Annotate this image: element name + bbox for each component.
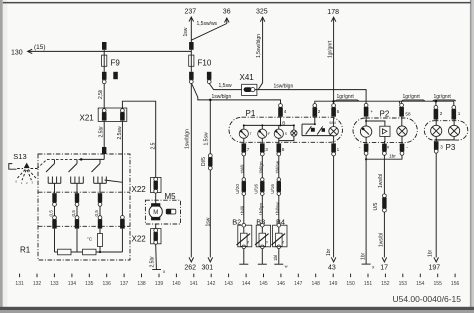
- wire 1br P1 pin1 to 43: [326, 156, 334, 258]
- P1 dimmer rheostat 1: [306, 126, 315, 134]
- svg-text:131: 131: [15, 281, 24, 287]
- wire 1sw/blgn F10 down to 262: [185, 84, 192, 258]
- P3 pin 2: [434, 106, 443, 120]
- svg-text:156: 156: [451, 281, 460, 287]
- svg-text:145: 145: [259, 281, 268, 287]
- terminal arrow 17: [380, 257, 388, 271]
- svg-text:X22: X22: [132, 185, 147, 194]
- svg-text:146: 146: [277, 281, 286, 287]
- P2 pin minus right: [400, 144, 409, 156]
- svg-text:1: 1: [21, 181, 23, 185]
- S13 mechanical link: [37, 159, 81, 168]
- wire 1sw/blgn F10 to P1 pin4: [192, 84, 281, 103]
- svg-text:155: 155: [434, 281, 443, 287]
- wire B2 to ground: [243, 249, 245, 264]
- document number U54.00-0040/6-15: [392, 294, 461, 304]
- svg-text:Dl/5: Dl/5: [201, 157, 207, 166]
- lamp unit P3 outline: [424, 121, 468, 153]
- svg-text:134: 134: [68, 281, 77, 287]
- svg-text:58: 58: [405, 111, 411, 116]
- P1 pin 4: [278, 104, 287, 117]
- svg-text:P2: P2: [380, 109, 390, 118]
- fuse F10: [189, 50, 212, 68]
- svg-text:1,5sw: 1,5sw: [219, 83, 232, 89]
- svg-text:2,5br: 2,5br: [99, 126, 105, 138]
- svg-text:301: 301: [202, 264, 214, 271]
- connector X22 upper: [132, 177, 162, 194]
- svg-text:2,5sw: 2,5sw: [117, 126, 123, 139]
- M5 interference suppressor: [166, 209, 176, 214]
- wire 1bl/gn to sensor B3: [259, 195, 264, 223]
- R1 input pin 3: [98, 216, 102, 229]
- P1 pin 7: [242, 143, 250, 156]
- ground point B3: [258, 263, 267, 265]
- wire 0,5 tap 2: [71, 206, 77, 216]
- svg-text:1bl/sw: 1bl/sw: [275, 202, 280, 216]
- svg-text:149: 149: [329, 281, 338, 287]
- svg-text:ϑ: ϑ: [266, 241, 268, 245]
- svg-text:1br: 1br: [326, 248, 332, 256]
- svg-text:1: 1: [458, 111, 461, 116]
- wire 2,5 loop X21 to X22 blower feed: [122, 101, 156, 177]
- P2 pin 58: [399, 101, 411, 116]
- terminal arrow 325 with wire 1,5sw/blgn: [256, 9, 268, 90]
- R1 feed pin from X21 2,5sw: [120, 216, 125, 229]
- R1 internal risers: [55, 229, 123, 252]
- svg-text:5: 5: [337, 109, 340, 114]
- connector Dl/5: [201, 154, 213, 170]
- svg-text:132: 132: [33, 281, 42, 287]
- svg-text:ϑ: ϑ: [282, 241, 284, 245]
- P2 pin plus: [364, 103, 374, 116]
- svg-text:0,5: 0,5: [49, 210, 54, 217]
- P1 dimmer rheostat 2: [317, 126, 325, 134]
- svg-text:R1: R1: [20, 246, 31, 255]
- svg-text:1sw: 1sw: [183, 27, 189, 36]
- svg-text:1ws/bl: 1ws/bl: [378, 174, 384, 188]
- R1 series chain wire: [55, 251, 123, 253]
- wire 2,5br X21 to S13: [99, 121, 105, 147]
- P1 gauge output drops: [244, 138, 279, 143]
- svg-text:3: 3: [440, 144, 443, 149]
- resistor unit R1 label: [20, 246, 31, 255]
- svg-text:2: 2: [440, 111, 443, 116]
- S13 feed pin from X21: [102, 147, 106, 154]
- terminal arrow 43: [328, 257, 336, 271]
- svg-text:58d: 58d: [329, 121, 335, 125]
- svg-text:2: 2: [318, 109, 321, 114]
- fuse F9 terminal pin on bus: [102, 42, 107, 50]
- svg-text:152: 152: [381, 281, 390, 287]
- svg-text:137: 137: [120, 281, 129, 287]
- svg-text:X41: X41: [240, 73, 255, 82]
- svg-text:-: -: [359, 144, 361, 150]
- svg-text:1bl/gn: 1bl/gn: [259, 203, 264, 216]
- svg-text:1gr/gnrt: 1gr/gnrt: [337, 94, 355, 100]
- svg-text:7: 7: [247, 147, 250, 152]
- svg-text:1gr/gnrt: 1gr/gnrt: [403, 94, 421, 100]
- svg-text:T: T: [250, 132, 253, 136]
- svg-text:F: F: [268, 132, 271, 136]
- svg-text:143: 143: [224, 281, 233, 287]
- label 1gr/gnrt right: [433, 94, 456, 101]
- ground point 1br with weld x: [362, 264, 376, 270]
- resistor R1 element 1: [58, 249, 72, 255]
- svg-text:°C: °C: [87, 237, 93, 242]
- S13 contact blade 1: [46, 159, 55, 172]
- S13 contact bank 3: [94, 177, 107, 194]
- svg-text:U/16: U/16: [254, 184, 259, 194]
- S13 high speed tap to 2,5sw wire: [105, 180, 123, 182]
- label 1gr/gnrt middle: [402, 94, 425, 101]
- P3 lamp left: [431, 120, 442, 137]
- wire 1ws/bl U/5 to 17: [379, 212, 385, 257]
- connector X41: [240, 73, 257, 95]
- terminal arrow 301: [202, 257, 214, 271]
- svg-text:U/20: U/20: [235, 184, 240, 194]
- fuse F10 terminal pin on bus: [189, 42, 194, 50]
- svg-text:237: 237: [185, 9, 197, 16]
- svg-text:F9: F9: [111, 58, 121, 67]
- rotary switch S13 symbol: [9, 152, 37, 185]
- svg-text:M5: M5: [165, 192, 177, 201]
- svg-text:133: 133: [50, 281, 59, 287]
- svg-text:136: 136: [103, 281, 112, 287]
- P1 gauge 3 (oil): [274, 129, 287, 138]
- wire 1br P2 minus join: [365, 153, 402, 160]
- svg-text:3: 3: [265, 147, 268, 152]
- ground point B4 with weld w: [274, 263, 287, 268]
- wire 1,5sw junction down to connector Dl/5: [203, 100, 210, 154]
- wire 1ws/bl P2 v down: [378, 155, 384, 194]
- svg-text:138: 138: [137, 281, 146, 287]
- wire 2,5sw X21 to R1 pin: [117, 121, 123, 216]
- svg-text:x: x: [163, 269, 166, 274]
- svg-text:1gr/gnrt: 1gr/gnrt: [328, 40, 334, 58]
- terminal arrow 237: [183, 9, 196, 42]
- svg-text:178: 178: [327, 9, 339, 16]
- svg-text:151: 151: [364, 281, 373, 287]
- P2 lamp: [397, 126, 407, 136]
- svg-text:1bl/li: 1bl/li: [240, 206, 245, 215]
- wire 1bl/sw to sensor B4: [275, 195, 280, 223]
- wire 2,5li F9 to X21: [98, 84, 104, 109]
- wire 1,5sw F10 to X41: [209, 83, 241, 89]
- svg-text:2,5br: 2,5br: [150, 256, 156, 268]
- P1 pin 1: [331, 143, 339, 156]
- wire 0,5 tap 1: [49, 206, 55, 216]
- wire 2,5br M5 to ground: [150, 224, 157, 269]
- wire B4 to ground: [273, 249, 279, 264]
- wire 1br P2 to ground: [361, 155, 367, 264]
- svg-text:147: 147: [294, 281, 303, 287]
- svg-text:ϑ: ϑ: [247, 241, 249, 245]
- P1 pin 5: [331, 104, 339, 117]
- P1 pin 8: [277, 143, 285, 156]
- terminal arrow 262: [184, 257, 196, 271]
- svg-text:141: 141: [190, 281, 199, 287]
- wire 1bl/sw P1 to B4: [275, 156, 280, 178]
- fuse F9: [102, 50, 121, 68]
- S13 contact blade 3: [92, 159, 101, 172]
- P3 pin 1: [452, 106, 461, 120]
- ground point B2: [239, 263, 248, 265]
- connector U/20: [235, 178, 246, 196]
- current track ruler: [15, 274, 459, 287]
- R1 thermal fuse: [87, 232, 103, 253]
- svg-text:1ws/bl: 1ws/bl: [379, 233, 385, 247]
- terminal arrow 197: [429, 257, 441, 271]
- wire 1bl/li to sensor B2: [240, 195, 245, 223]
- connector X21: [80, 108, 127, 123]
- wire 1sw/blgn X41 to P2 plus: [255, 83, 366, 103]
- connector U/5: [373, 194, 386, 212]
- svg-text:130: 130: [11, 50, 23, 57]
- terminal arrow 178 with wire 1gr/gnrt: [327, 9, 339, 101]
- junction 178 on bus: [332, 100, 335, 103]
- svg-text:w: w: [285, 263, 288, 268]
- resistor R1 element 2: [83, 249, 97, 255]
- P1 internal feed bus from pin4, label B: [243, 117, 295, 131]
- P1 pin 3: [260, 143, 268, 156]
- blower motor M5: [145, 192, 180, 224]
- instrument cluster P1 outline: [229, 109, 343, 143]
- P1 warning lamp: [279, 130, 297, 141]
- P1 pin 2: [313, 104, 321, 117]
- svg-text:P1: P1: [246, 109, 256, 118]
- label 1gr/gnrt left: [335, 94, 359, 101]
- svg-text:M: M: [153, 210, 158, 216]
- svg-text:262: 262: [184, 264, 196, 271]
- S13 R1 unit dash-dot box: [38, 154, 130, 260]
- svg-text:150: 150: [346, 281, 355, 287]
- P3 pin 3: [434, 141, 443, 153]
- svg-text:0,5: 0,5: [94, 210, 99, 217]
- svg-text:+: +: [370, 109, 373, 114]
- wire 1bl/gn P1 to B3: [259, 156, 264, 178]
- svg-text:2,5li: 2,5li: [98, 90, 104, 99]
- S13 contact bank 2: [71, 177, 84, 194]
- svg-text:1br: 1br: [389, 153, 396, 158]
- P3 lamp right: [449, 120, 460, 137]
- svg-text:X21: X21: [80, 114, 95, 123]
- svg-text:1,5sw/ws: 1,5sw/ws: [197, 21, 218, 27]
- svg-text:1sw/blgn: 1sw/blgn: [185, 129, 191, 149]
- P2 internal wiring: [365, 117, 402, 144]
- svg-text:1,5sw/blgn: 1,5sw/blgn: [256, 34, 262, 58]
- svg-text:S: S: [285, 132, 288, 136]
- ground point M5 with weld x: [152, 269, 166, 274]
- svg-text:0,5: 0,5: [71, 210, 76, 217]
- svg-text:(15): (15): [34, 44, 46, 51]
- svg-text:x: x: [372, 265, 375, 270]
- svg-text:1: 1: [337, 147, 340, 152]
- svg-text:1bl: 1bl: [273, 255, 278, 261]
- svg-text:2: 2: [26, 181, 28, 185]
- P2 clock symbol: [380, 126, 390, 136]
- P2 gauge (economy): [360, 126, 371, 137]
- wire circuit 15 horizontal bus: [28, 50, 192, 52]
- svg-text:1,5sw: 1,5sw: [203, 132, 209, 145]
- svg-text:140: 140: [172, 281, 181, 287]
- svg-text:1bl/gn: 1bl/gn: [259, 161, 264, 174]
- svg-text:B: B: [282, 121, 285, 126]
- svg-text:142: 142: [207, 281, 216, 287]
- wire B3 to ground: [261, 249, 263, 264]
- S13 contact blade 2: [69, 159, 78, 172]
- wire 1gr/gnrt bus to P1 P2 P3: [315, 101, 454, 105]
- connector U/16: [270, 178, 281, 196]
- svg-text:X22: X22: [132, 235, 147, 244]
- svg-text:1sw: 1sw: [205, 217, 211, 226]
- S13 feed bus: [80, 154, 104, 161]
- svg-text:1gr/gnrt: 1gr/gnrt: [434, 94, 452, 100]
- fuse F9 output pins: [102, 66, 118, 83]
- gauge unit P2 outline: [353, 109, 417, 142]
- P2 pin v: [382, 144, 390, 156]
- P2 pin minus left: [359, 144, 369, 156]
- junction P3 pin2 on bus: [435, 100, 438, 103]
- wire X22 to M5: [155, 193, 157, 204]
- svg-text:1br: 1br: [361, 252, 367, 260]
- svg-text:153: 153: [399, 281, 408, 287]
- wire 1br P3 to 197: [428, 153, 437, 257]
- svg-text:148: 148: [312, 281, 321, 287]
- temperature sensor B3: [255, 218, 271, 249]
- svg-text:1sw/blgn: 1sw/blgn: [212, 94, 232, 100]
- svg-text:F10: F10: [198, 58, 212, 67]
- svg-text:v: v: [387, 145, 390, 150]
- svg-text:197: 197: [429, 264, 441, 271]
- junction on 1sw/blgn wire: [209, 99, 212, 102]
- P1 dimmer wiring: [302, 117, 334, 136]
- R1 input pin 2: [75, 216, 79, 229]
- svg-text:1bl/sw: 1bl/sw: [275, 160, 280, 174]
- svg-text:1sw/blgn: 1sw/blgn: [274, 83, 294, 89]
- wire 1bl/li P1 to B2: [240, 156, 245, 178]
- svg-text:17: 17: [380, 264, 388, 271]
- terminal arrow 36 with wire 1,5sw/ws: [191, 9, 230, 41]
- svg-text:325: 325: [256, 9, 268, 16]
- P1 gauge 2 (fuel): [258, 129, 271, 138]
- svg-text:-: -: [406, 144, 408, 150]
- P1 illumination lamp 58d: [329, 117, 339, 143]
- connector X22 lower: [132, 229, 162, 245]
- svg-text:3: 3: [31, 180, 33, 184]
- svg-text:2,5: 2,5: [151, 142, 157, 149]
- connector U/16: [254, 178, 265, 196]
- svg-text:144: 144: [242, 281, 251, 287]
- wire 0,5 tap 3: [94, 206, 100, 216]
- svg-text:135: 135: [85, 281, 94, 287]
- S13 contact bank 1: [48, 177, 61, 194]
- svg-text:4: 4: [284, 109, 287, 114]
- svg-text:36: 36: [223, 9, 231, 16]
- P3 internal return bus: [435, 137, 454, 142]
- svg-text:S13: S13: [13, 152, 26, 161]
- P1 gauge 1 (temperature): [239, 129, 252, 138]
- wire 1sw Dl/5 down to 301: [205, 170, 211, 257]
- svg-text:1br: 1br: [428, 249, 434, 257]
- S13 output pin 3: [98, 193, 102, 206]
- svg-text:U/5: U/5: [373, 203, 379, 211]
- svg-text:154: 154: [416, 281, 425, 287]
- svg-text:139: 139: [155, 281, 164, 287]
- R1 input pin 1: [52, 216, 56, 229]
- svg-text:P3: P3: [446, 143, 456, 152]
- svg-text:U54.00-0040/6-15: U54.00-0040/6-15: [392, 294, 461, 304]
- temperature sensor B4: [272, 218, 288, 249]
- svg-text:1bl/li: 1bl/li: [240, 165, 245, 174]
- S13 output pin 1: [52, 193, 56, 206]
- S13 output pin 2: [75, 193, 79, 206]
- fuse F10 output pins: [189, 66, 211, 83]
- svg-text:U/16: U/16: [270, 184, 275, 194]
- temperature sensor B2: [232, 218, 252, 249]
- svg-text:0: 0: [15, 180, 17, 184]
- node 130 terminal (15) feed arrow: [11, 44, 46, 57]
- svg-text:8: 8: [282, 147, 285, 152]
- svg-text:43: 43: [328, 264, 336, 271]
